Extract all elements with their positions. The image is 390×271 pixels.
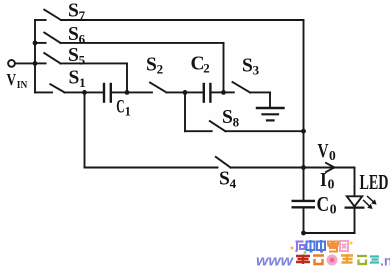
switch S6 — [35, 33, 61, 43]
svg-text:S: S — [242, 55, 253, 76]
wire — [65, 91, 103, 93]
svg-text:S: S — [68, 45, 79, 66]
node — [301, 165, 306, 170]
svg-text:C: C — [116, 97, 124, 117]
label C2 — [191, 53, 210, 75]
node — [125, 90, 130, 95]
svg-text:2: 2 — [157, 62, 164, 77]
wire — [304, 232, 355, 234]
label S2 — [146, 54, 163, 76]
svg-text:3: 3 — [253, 63, 260, 78]
wire — [303, 208, 305, 233]
ground — [257, 108, 284, 120]
switch S8 — [185, 121, 225, 131]
capacitor C2 — [204, 84, 211, 102]
wire — [304, 167, 355, 169]
label S7 — [68, 1, 86, 23]
wire — [61, 62, 128, 64]
wire — [15, 62, 35, 64]
wire — [167, 91, 203, 93]
label VIN — [7, 70, 28, 91]
wire — [184, 92, 186, 131]
svg-text:1: 1 — [79, 75, 86, 90]
capacitor C0 — [293, 201, 314, 207]
node — [33, 61, 38, 66]
label V0 — [318, 140, 337, 163]
label S4 — [219, 169, 237, 191]
wire — [354, 209, 356, 233]
svg-text:I: I — [320, 169, 327, 191]
svg-text:S: S — [69, 68, 80, 89]
svg-text:0: 0 — [328, 177, 335, 192]
node — [221, 90, 226, 95]
switch S3 — [224, 82, 251, 92]
svg-text:S: S — [146, 54, 157, 75]
svg-text:0: 0 — [329, 148, 336, 163]
wire — [223, 43, 225, 93]
wire — [212, 91, 224, 93]
svg-text:IN: IN — [17, 79, 28, 91]
switch S5 — [35, 53, 61, 63]
wire — [84, 92, 86, 167]
switch S2 — [127, 83, 167, 93]
svg-text:C: C — [317, 192, 330, 216]
svg-text:S: S — [219, 169, 230, 190]
node — [33, 41, 38, 46]
label S3 — [242, 55, 260, 77]
LED diode — [346, 196, 364, 207]
svg-text:S: S — [222, 107, 233, 128]
svg-text:4: 4 — [230, 176, 237, 191]
wire — [303, 20, 305, 200]
LED emission arrows — [364, 197, 377, 209]
label S8 — [222, 107, 240, 129]
node — [183, 90, 188, 95]
wire — [85, 167, 218, 169]
svg-text:www: www — [256, 253, 294, 270]
wire — [269, 92, 271, 107]
input terminal VIN — [8, 60, 15, 67]
label I0 — [320, 169, 335, 192]
svg-text:0: 0 — [330, 202, 337, 217]
svg-text:5: 5 — [79, 52, 86, 67]
wire — [225, 130, 303, 132]
watermark line 2 — [256, 253, 390, 270]
svg-text:.n: .n — [380, 253, 390, 269]
wire — [126, 63, 128, 92]
wire — [250, 91, 270, 93]
label S1 — [69, 68, 86, 90]
watermark line 1 — [291, 240, 353, 254]
wire — [34, 20, 36, 92]
svg-text:V: V — [7, 70, 17, 89]
wire — [354, 168, 356, 197]
label LED — [360, 170, 389, 194]
wire — [61, 42, 224, 44]
wire — [112, 91, 127, 93]
svg-text:7: 7 — [79, 8, 86, 23]
label C1 — [116, 97, 131, 118]
wire — [61, 19, 304, 21]
node — [301, 231, 306, 236]
svg-text:8: 8 — [233, 114, 240, 129]
capacitor C1 — [104, 84, 111, 102]
switch S1 — [35, 84, 65, 92]
arrowhead I0 — [326, 163, 334, 172]
label S6 — [68, 24, 86, 46]
svg-text:6: 6 — [79, 31, 86, 46]
label S5 — [68, 45, 86, 67]
node A — [82, 90, 87, 95]
wire — [231, 167, 304, 169]
svg-text:V: V — [318, 140, 329, 162]
svg-text:S: S — [68, 24, 79, 45]
node — [301, 129, 306, 134]
svg-text:S: S — [68, 1, 79, 22]
svg-text:LED: LED — [360, 170, 389, 194]
switch S4 — [216, 157, 231, 168]
label C0 — [317, 192, 337, 217]
switch S7 — [35, 10, 61, 20]
svg-text:2: 2 — [203, 61, 210, 76]
svg-text:1: 1 — [125, 105, 131, 119]
